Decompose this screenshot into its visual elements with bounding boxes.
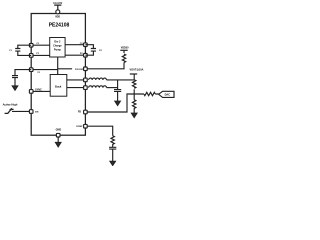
wire VOUT phase 1 (107, 79, 135, 81)
Div 2 Charge Pump block (50, 38, 65, 58)
label PGOOD (with halo) (72, 66, 83, 70)
svg-text:Active High: Active High (3, 102, 18, 106)
wire to rail bar (123, 50, 125, 53)
resistor R2 (divider bottom) (133, 100, 136, 113)
wire output cap branch (117, 80, 119, 90)
pin V1 (29, 68, 33, 72)
pin SYNC (29, 90, 33, 94)
ground (V1 cap) (12, 86, 17, 90)
svg-text:C1: C1 (9, 50, 13, 52)
resistor R3 (to DAC) (144, 92, 155, 95)
ground (GND pin) (57, 137, 59, 143)
wire buck out 2 (67, 87, 86, 89)
pin P1 (29, 54, 33, 58)
capacitor C4 (V1 bypass) (15, 70, 31, 86)
wire SYNC to buck (31, 90, 50, 92)
active-high edge symbol (5, 109, 14, 113)
DAC connector flag (159, 91, 174, 97)
capacitor COUT (114, 90, 121, 92)
wire PGOOD internal (58, 68, 86, 70)
wire divider mid (133, 89, 135, 100)
wire charge pump to buck (57, 57, 59, 75)
terminal bar VOUT (130, 73, 137, 75)
svg-text:VDD: VDD (55, 16, 60, 19)
svg-text:SYNC: SYNC (35, 88, 42, 91)
pin VDD (top border) (56, 10, 60, 14)
capacitor C1 (flying, left) (18, 45, 31, 55)
svg-text:COMP: COMP (76, 126, 83, 128)
pin C2 (84, 43, 88, 47)
resistor R pull-up (122, 54, 125, 63)
svg-text:FB: FB (78, 111, 81, 113)
capacitor C2 (flying, right) (85, 45, 93, 56)
wire R3 leads (134, 93, 158, 95)
svg-text:C1: C1 (36, 43, 40, 45)
wire PGOOD pull-up (87, 63, 124, 69)
pin C1 (29, 43, 33, 47)
pin GND (56, 133, 60, 137)
wire P1 pin to charge pump (31, 54, 50, 56)
inductor L1 (buck out 1) (89, 78, 107, 80)
svg-text:P1: P1 (36, 53, 39, 55)
wire EN (12, 110, 30, 112)
resistor R1 (divider top) (133, 80, 136, 88)
pin COMP (84, 124, 88, 128)
wire VOUT stem (133, 74, 135, 80)
pin P2 (84, 53, 88, 57)
svg-text:GND: GND (56, 129, 62, 132)
wire COMP network (87, 126, 113, 136)
svg-text:Charge: Charge (53, 44, 62, 47)
chip body PE24108 (31, 14, 85, 136)
pin SW1 (84, 78, 88, 82)
wire VOUT phase 2 (107, 87, 118, 89)
pin PGOOD (84, 67, 88, 71)
pin SW2 (84, 86, 88, 90)
inductor L2 (buck out 2) (89, 86, 107, 88)
svg-text:DAC: DAC (165, 93, 171, 96)
svg-text:C2: C2 (99, 50, 103, 52)
supply bar terminal (54, 5, 61, 10)
wire V1 (31, 69, 58, 71)
pin EN (29, 110, 33, 114)
svg-text:V1: V1 (37, 72, 40, 74)
svg-text:PGOOD: PGOOD (75, 69, 84, 71)
wire P2 pin to charge pump (65, 54, 85, 56)
ground (comp) (112, 149, 114, 161)
svg-text:VDD50: VDD50 (121, 46, 129, 49)
pin FB (84, 110, 88, 114)
svg-text:EN: EN (35, 111, 38, 113)
ground (COUT) (117, 91, 119, 101)
Buck block (50, 75, 67, 97)
resistor R4 (comp) (111, 136, 114, 148)
svg-text:VOUT@10A: VOUT@10A (130, 69, 144, 72)
wire C1 pin to charge pump (31, 44, 50, 46)
wire C2 pin to charge pump (65, 44, 85, 46)
terminal bar VDD50 (120, 49, 127, 51)
wire FB to divider (87, 94, 134, 112)
svg-text:Div 2: Div 2 (54, 41, 61, 44)
svg-text:PE24108: PE24108 (49, 23, 70, 29)
ground (divider) (132, 113, 137, 117)
svg-text:Pump: Pump (54, 48, 61, 51)
wire buck out 1 (67, 79, 86, 81)
svg-text:Buck: Buck (55, 84, 62, 88)
capacitor C5 (comp) (109, 147, 116, 149)
